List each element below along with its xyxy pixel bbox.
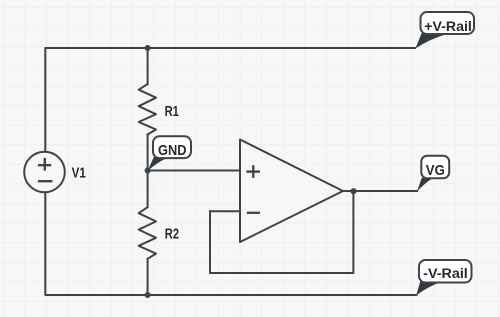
svg-text:-V-Rail: -V-Rail (423, 266, 468, 281)
svg-text:V1: V1 (72, 165, 86, 182)
svg-text:R2: R2 (165, 225, 179, 242)
svg-text:+V-Rail: +V-Rail (424, 19, 472, 34)
svg-text:VG: VG (426, 163, 445, 179)
svg-text:GND: GND (158, 143, 187, 159)
svg-text:R1: R1 (165, 103, 179, 120)
